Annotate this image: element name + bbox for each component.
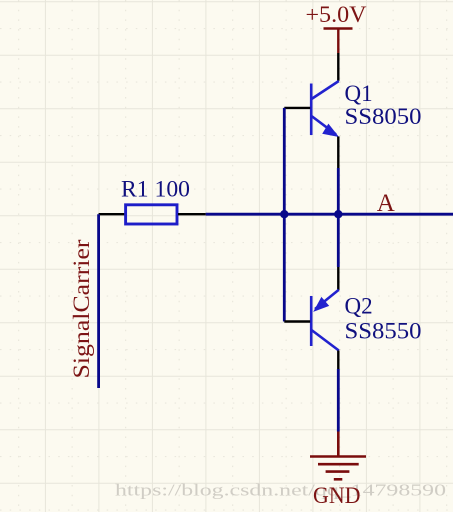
svg-text:SS8050: SS8050 [345, 104, 422, 129]
transistor Q1 (NPN SS8050) [311, 81, 339, 137]
wire: output to right edge [206, 213, 453, 216]
svg-text:SignalCarrier: SignalCarrier [69, 239, 94, 378]
svg-text:https://blog.csdn.net/qq_14798: https://blog.csdn.net/qq_14798590 [115, 481, 446, 500]
resistor R1 [126, 205, 177, 224]
pin Q2 emitter [337, 267, 339, 290]
wire: SignalCarrier stub (vertical) [97, 214, 100, 388]
pin Q1 emitter [337, 137, 339, 169]
svg-text:R1 100: R1 100 [121, 176, 190, 201]
pin Q1 collector [337, 53, 339, 81]
svg-text:Q1: Q1 [345, 81, 373, 106]
pin Q2 base [284, 320, 310, 322]
svg-text:A: A [377, 190, 395, 217]
wire: base bus vertical [283, 108, 286, 322]
pin R1 2 (right) [178, 213, 206, 215]
svg-text:+5.0V: +5.0V [306, 2, 367, 27]
power port stem [337, 29, 339, 54]
pin Q1 base [284, 107, 310, 109]
ground symbol [310, 432, 366, 480]
wire: Q1 emitter to Q2 emitter (vertical, through node A) [337, 168, 340, 267]
svg-text:GND: GND [313, 483, 361, 508]
power port +5.0V bar symbol [324, 27, 353, 30]
pin R1 1 (left) [99, 213, 126, 215]
pin Q2 collector [337, 351, 339, 370]
svg-text:Q2: Q2 [345, 294, 373, 319]
svg-text:SS8550: SS8550 [345, 319, 422, 344]
junction dot at emitter line / output wire [334, 210, 342, 218]
junction dot at base bus / output wire [280, 210, 288, 218]
wire: Q2 collector to ground [337, 369, 340, 432]
transistor Q2 (PNP SS8550) [311, 290, 339, 351]
